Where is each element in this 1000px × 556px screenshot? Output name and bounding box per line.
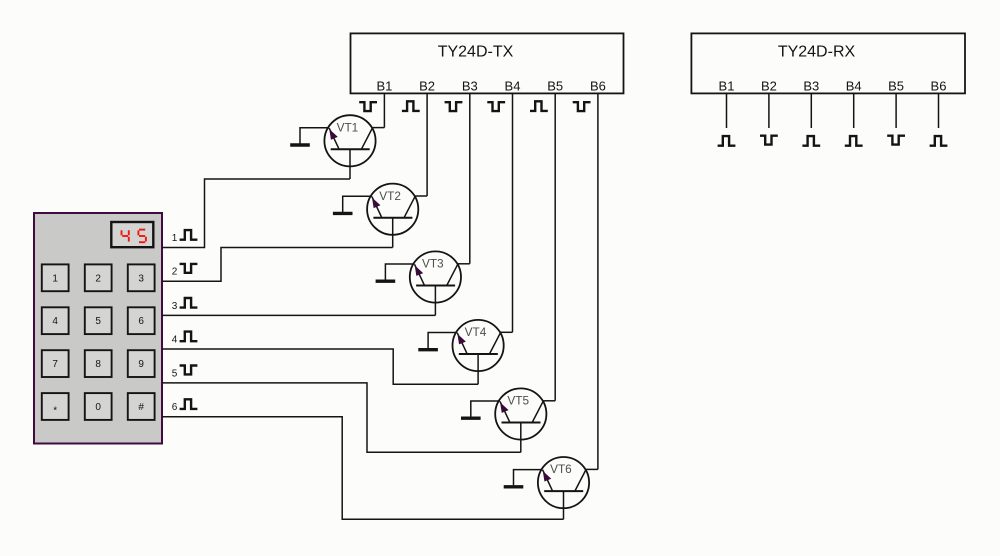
- button 7: [42, 350, 69, 377]
- wire TX pin B5 vertical: [554, 93, 556, 400]
- wire keypad output 5 to VT5 base: [162, 383, 521, 452]
- pulse symbol at RX B2: [760, 136, 778, 145]
- wire RX pin B2 vertical: [768, 93, 770, 128]
- svg-text:6: 6: [172, 402, 178, 413]
- button 5: [85, 307, 112, 334]
- transistor VT4: [453, 320, 513, 384]
- button 4: [42, 307, 69, 334]
- svg-text:B1: B1: [719, 78, 735, 93]
- pulse symbol at TX B1: [359, 102, 377, 111]
- svg-text:2: 2: [95, 273, 101, 284]
- button 1: [42, 264, 69, 291]
- transistor VT6: [538, 457, 598, 519]
- svg-text:VT1: VT1: [337, 120, 359, 134]
- svg-text:B3: B3: [462, 78, 478, 93]
- ground (VT5 emitter): [461, 417, 481, 420]
- svg-text:3: 3: [172, 301, 178, 312]
- svg-text:B6: B6: [931, 78, 947, 93]
- pulse symbol at RX B5: [887, 136, 905, 145]
- pulse symbol at keypad output 4: [180, 332, 198, 342]
- svg-text:8: 8: [95, 359, 101, 370]
- pulse symbol at keypad output 2: [180, 264, 198, 273]
- wire RX pin B3 vertical: [810, 93, 812, 128]
- svg-text:B1: B1: [376, 78, 392, 93]
- svg-text:B2: B2: [761, 78, 777, 93]
- svg-text:4: 4: [52, 316, 58, 327]
- svg-text:3: 3: [138, 273, 144, 284]
- button 8: [85, 350, 112, 377]
- wire keypad output 2 to VT2 base: [162, 248, 393, 282]
- transistor VT1: [324, 115, 384, 179]
- ground (VT6 emitter): [504, 485, 524, 488]
- svg-text:TY24D-RX: TY24D-RX: [778, 43, 856, 60]
- wire RX pin B5 vertical: [895, 93, 897, 128]
- svg-text:TY24D-TX: TY24D-TX: [438, 43, 514, 60]
- pulse symbol at keypad output 5: [180, 366, 198, 375]
- pulse symbol at RX B4: [845, 136, 863, 146]
- transistor VT3: [410, 251, 470, 315]
- pulse symbol at TX B2: [402, 101, 420, 111]
- pulse symbol at RX B6: [930, 136, 948, 146]
- wire TX pin B6 vertical: [597, 93, 599, 469]
- IC TY24D-RX box: [691, 33, 965, 93]
- svg-text:*: *: [53, 406, 57, 417]
- svg-text:B4: B4: [846, 78, 862, 93]
- keypad module: [34, 213, 162, 444]
- ground (VT1 emitter): [290, 143, 310, 146]
- pulse symbol at keypad output 6: [180, 399, 198, 409]
- svg-text:1: 1: [52, 273, 58, 284]
- pulse symbol at keypad output 3: [180, 298, 198, 308]
- pulse symbol at TX B5: [530, 101, 548, 111]
- pulse symbol at RX B1: [718, 136, 736, 146]
- wire keypad output 1 to VT1 base: [162, 179, 350, 248]
- wire RX pin B1 vertical: [726, 93, 728, 128]
- pulse symbol at RX B3: [802, 136, 820, 146]
- button star: [42, 393, 69, 420]
- wire VT2 emitter to ground: [343, 196, 372, 212]
- svg-text:B4: B4: [505, 78, 521, 93]
- wire RX pin B6 vertical: [938, 93, 940, 128]
- wire VT5 emitter to ground: [471, 401, 500, 417]
- wire keypad output 3 to VT3 base: [162, 314, 435, 316]
- ground (VT4 emitter): [418, 348, 438, 351]
- wire RX pin B4 vertical: [853, 93, 855, 128]
- svg-text:B6: B6: [590, 78, 606, 93]
- button 6: [128, 307, 155, 334]
- pulse symbol at TX B6: [573, 102, 591, 111]
- wire keypad output 4 to VT4 base: [162, 349, 478, 384]
- svg-text:5: 5: [172, 368, 178, 379]
- button 0: [85, 393, 112, 420]
- wire keypad output 6 to VT6 base: [162, 417, 564, 520]
- wire VT3 emitter to ground: [385, 264, 414, 280]
- svg-text:VT4: VT4: [465, 325, 487, 339]
- wire TX pin B3 vertical: [469, 93, 471, 263]
- button 3: [128, 264, 155, 291]
- IC TY24D-TX box: [351, 33, 624, 93]
- svg-text:7: 7: [52, 359, 58, 370]
- wire VT6 emitter to ground: [514, 470, 543, 486]
- svg-text:VT3: VT3: [422, 257, 444, 271]
- svg-text:B3: B3: [803, 78, 819, 93]
- wire VT1 emitter to ground: [300, 128, 329, 144]
- wire TX pin B4 vertical: [512, 93, 514, 332]
- svg-text:0: 0: [95, 402, 101, 413]
- wire VT4 emitter to ground: [428, 333, 457, 349]
- svg-text:B5: B5: [547, 78, 563, 93]
- pulse symbol at TX B4: [487, 102, 505, 111]
- wire TX pin B1 vertical: [383, 93, 385, 127]
- svg-text:4: 4: [172, 334, 178, 345]
- svg-text:5: 5: [95, 316, 101, 327]
- pulse symbol at TX B3: [445, 102, 463, 111]
- svg-text:B2: B2: [419, 78, 435, 93]
- display HG1 (7-segment, shows 45): [111, 222, 153, 247]
- button 2: [85, 264, 112, 291]
- transistor VT5: [495, 388, 555, 452]
- button 9: [128, 350, 155, 377]
- pulse symbol at keypad output 1: [180, 230, 198, 240]
- button hash: [128, 393, 155, 420]
- ground (VT3 emitter): [376, 280, 396, 283]
- svg-text:6: 6: [138, 316, 144, 327]
- svg-text:B5: B5: [888, 78, 904, 93]
- transistor VT2: [367, 184, 427, 248]
- wire TX pin B2 vertical: [426, 93, 428, 196]
- svg-text:2: 2: [172, 267, 178, 278]
- ground (VT2 emitter): [333, 212, 353, 215]
- svg-text:9: 9: [138, 359, 144, 370]
- svg-text:VT5: VT5: [507, 394, 529, 408]
- svg-text:#: #: [138, 402, 144, 413]
- svg-text:VT6: VT6: [550, 462, 572, 476]
- svg-text:VT2: VT2: [379, 189, 401, 203]
- svg-text:1: 1: [172, 233, 178, 244]
